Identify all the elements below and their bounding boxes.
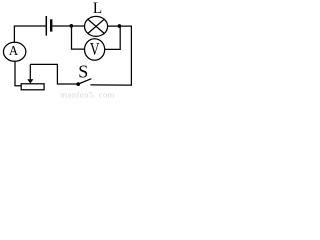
battery long plate bbox=[45, 16, 47, 36]
rheostat wiper arrowhead bbox=[27, 79, 33, 83]
wire lamp to top-right corner bbox=[108, 26, 132, 85]
svg-text:V: V bbox=[90, 39, 100, 59]
switch S pivot node bbox=[76, 82, 80, 86]
battery short thick plate bbox=[50, 19, 52, 31]
switch S lever bbox=[78, 79, 91, 84]
rheostat body R bbox=[21, 84, 44, 90]
lamp L cross stroke 2 bbox=[88, 19, 104, 33]
node junction left bbox=[69, 24, 73, 28]
wire ammeter to rheostat bbox=[15, 61, 21, 85]
svg-text:S: S bbox=[78, 61, 88, 81]
lamp L circle bbox=[85, 16, 108, 36]
wire battery to lamp bbox=[52, 25, 84, 27]
lamp L cross stroke 1 bbox=[88, 19, 104, 33]
rheostat wiper arrow stem bbox=[29, 64, 31, 80]
svg-text:L: L bbox=[93, 0, 102, 17]
wire top-left segment bbox=[14, 26, 46, 42]
voltmeter U2 circle bbox=[85, 39, 105, 60]
node junction right bbox=[118, 24, 122, 28]
wire voltmeter left branch bbox=[72, 26, 85, 49]
wire switch to rheostat wiper bbox=[30, 64, 76, 84]
svg-text:A: A bbox=[9, 43, 18, 58]
wire bottom-right to switch bbox=[90, 84, 131, 86]
wire voltmeter right branch bbox=[105, 26, 120, 49]
ammeter U1 circle bbox=[3, 42, 25, 61]
svg-text:manfen5. com: manfen5. com bbox=[60, 90, 115, 98]
